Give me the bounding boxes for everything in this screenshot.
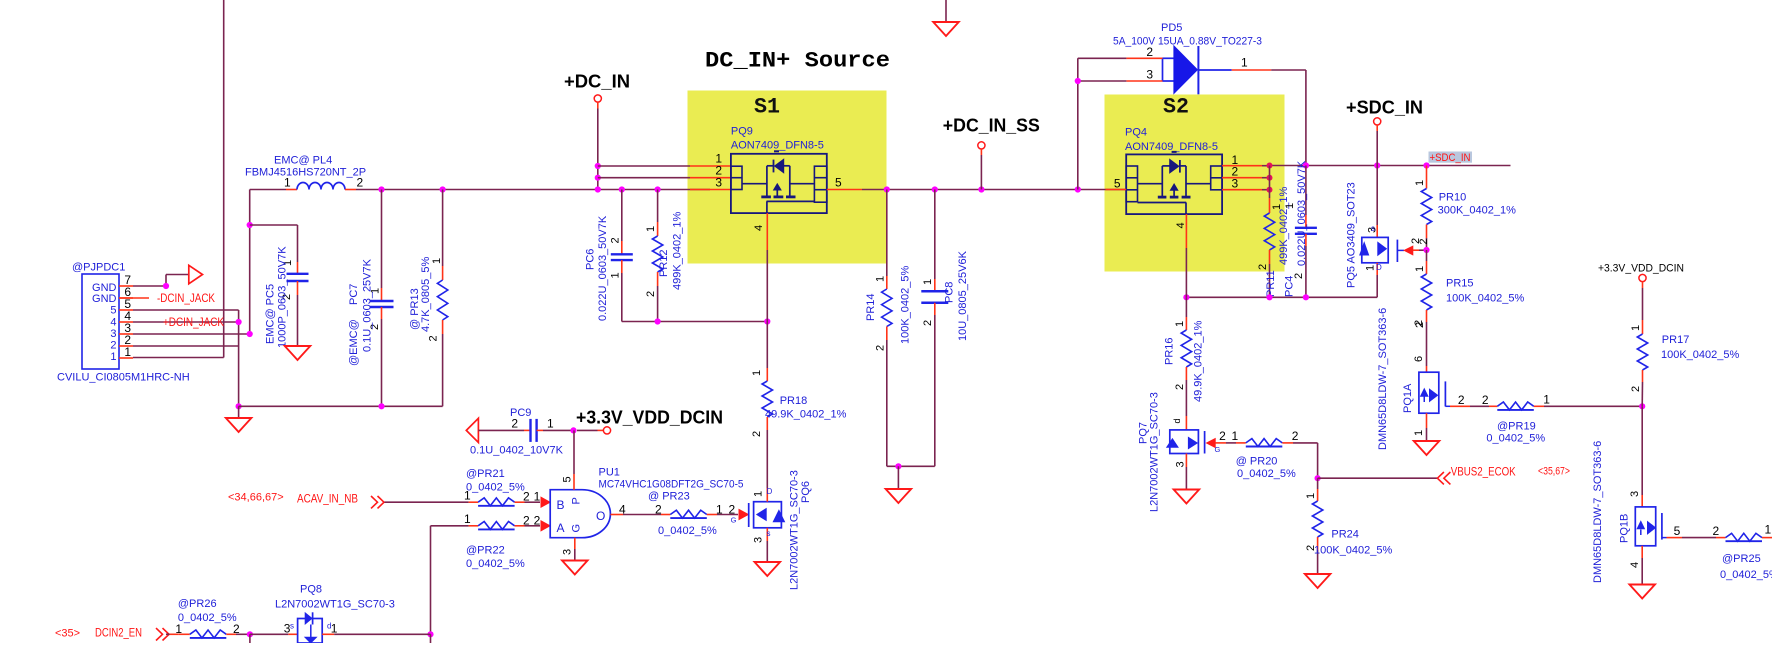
input arrow B (541, 497, 550, 507)
svg-text:2: 2 (1292, 429, 1299, 443)
wire pin4 +DCIN_JACK (133, 321, 239, 323)
junction (1075, 186, 1081, 192)
svg-text:2: 2 (610, 237, 622, 243)
junction (247, 222, 253, 228)
svg-text:AON7409_DFN8-5: AON7409_DFN8-5 (1125, 141, 1218, 153)
svg-text:1: 1 (1232, 429, 1239, 443)
svg-text:2: 2 (729, 503, 736, 517)
svg-text:3: 3 (1175, 461, 1187, 467)
capacitor PC6 (621, 190, 623, 242)
wire to VBUS2_ECOK (1317, 443, 1319, 478)
svg-text:2: 2 (428, 335, 440, 341)
junction (1267, 163, 1273, 169)
junction (595, 186, 601, 192)
svg-text:4: 4 (1175, 222, 1187, 228)
svg-text:499K_0402_1%: 499K_0402_1% (672, 211, 684, 290)
svg-text:5: 5 (835, 176, 842, 190)
transistor PQ7 L2N7002WT1G_SC70-3 (1185, 416, 1187, 430)
junction (1303, 294, 1309, 300)
svg-text:PR17: PR17 (1662, 334, 1690, 346)
resistor PR26 (170, 633, 179, 635)
junction (1266, 294, 1272, 300)
svg-text:1: 1 (1414, 180, 1426, 186)
svg-text:D: D (1376, 263, 1382, 272)
svg-text:PR18: PR18 (780, 395, 808, 407)
svg-text:100K_0402_5%: 100K_0402_5% (1446, 293, 1525, 305)
ground (226, 418, 252, 432)
svg-text:PR16: PR16 (1164, 337, 1176, 365)
svg-text:1: 1 (547, 417, 554, 431)
wire +SDC_IN bus (1270, 165, 1511, 167)
svg-text:2: 2 (233, 622, 240, 636)
svg-text:G: G (571, 524, 583, 533)
svg-text:1: 1 (110, 351, 116, 363)
resistor PR19 (1497, 402, 1534, 410)
resistor PR25 (1726, 533, 1763, 541)
svg-text:0_0402_5%: 0_0402_5% (1486, 433, 1545, 445)
svg-text:FBMJ4516HS720NT_2P: FBMJ4516HS720NT_2P (245, 167, 366, 179)
ground (1629, 585, 1655, 599)
transistor PQ5 AO3409_SOT23 (1376, 166, 1378, 226)
highlight box S1 (688, 91, 887, 264)
svg-text:O: O (596, 509, 605, 523)
input arrow A (541, 521, 550, 531)
svg-text:L2N7002WT1G_SC70-3: L2N7002WT1G_SC70-3 (275, 599, 395, 611)
resistor PR10 (1426, 166, 1428, 189)
off-page arrow DCIN2_EN (156, 628, 163, 640)
wire PQ4 pin4 (1185, 214, 1187, 248)
resistor PR18 (766, 322, 768, 369)
svg-text:5: 5 (562, 476, 574, 482)
svg-text:2: 2 (1713, 524, 1720, 538)
svg-text:P: P (571, 497, 583, 504)
svg-text:@PR21: @PR21 (466, 468, 505, 480)
svg-text:L2N7002WT1G_SC70-3: L2N7002WT1G_SC70-3 (789, 470, 801, 590)
svg-text:2: 2 (1413, 320, 1425, 326)
svg-text:PQ9: PQ9 (731, 126, 753, 138)
svg-text:1: 1 (1305, 493, 1317, 499)
wire pin5 (133, 309, 239, 311)
svg-text:1: 1 (431, 258, 443, 264)
transistor PQ6 L2N7002WT1G_SC70-3 (748, 503, 750, 527)
svg-text:10U_0805_25V6K: 10U_0805_25V6K (957, 250, 969, 341)
svg-text:2: 2 (511, 417, 518, 431)
junction (427, 631, 433, 637)
wire PQ9 pin1 (598, 165, 690, 167)
resistor PR21 (385, 501, 469, 503)
svg-text:DMN65D8LDW-7_SOT363-6: DMN65D8LDW-7_SOT363-6 (1592, 441, 1604, 583)
off-page arrow ACAV_IN_NB (371, 496, 378, 508)
ground (1414, 441, 1440, 455)
svg-text:2: 2 (922, 320, 934, 326)
junction (1423, 247, 1429, 253)
svg-text:PU1: PU1 (599, 467, 620, 479)
resistor PR13 (442, 190, 444, 267)
junction (236, 403, 242, 409)
svg-text:5: 5 (1674, 524, 1681, 538)
svg-text:1: 1 (1543, 393, 1550, 407)
junction (895, 463, 901, 469)
inductor PL4 (286, 189, 297, 191)
junction (932, 186, 938, 192)
resistor PR16 (1185, 297, 1187, 317)
ground (945, 0, 947, 22)
svg-text:1: 1 (716, 503, 723, 517)
resistor PR11 (1269, 166, 1271, 199)
wire to capacitor PC5 (250, 224, 298, 226)
svg-text:DCIN2_EN: DCIN2_EN (95, 626, 142, 640)
svg-text:d: d (327, 622, 331, 631)
svg-text:+DC_IN: +DC_IN (564, 72, 630, 92)
transistor PQ9 AON7409_DFN8-5 (731, 126, 827, 214)
svg-text:499K_0402_1%: 499K_0402_1% (1278, 186, 1290, 265)
wire PQ9 pin3 (690, 189, 731, 191)
svg-text:EMC@ PC5: EMC@ PC5 (265, 284, 277, 344)
svg-text:1: 1 (610, 272, 622, 278)
svg-text:2: 2 (357, 176, 364, 190)
resistor PR24 (1317, 478, 1319, 489)
svg-text:0.022U_0603_50V7K: 0.022U_0603_50V7K (1296, 160, 1308, 266)
junction (247, 631, 253, 637)
wire ground bus (239, 405, 443, 407)
svg-text:PD5: PD5 (1161, 22, 1182, 34)
svg-text:PC7: PC7 (348, 284, 360, 305)
svg-text:PR24: PR24 (1331, 529, 1359, 541)
svg-text:ACAV_IN_NB: ACAV_IN_NB (297, 492, 358, 506)
transistor PQ1B DMN65D8LDW-7 (1641, 406, 1643, 495)
junction (1267, 175, 1273, 181)
svg-text:+3.3V_VDD_DCIN: +3.3V_VDD_DCIN (576, 408, 723, 428)
svg-text:G: G (1215, 445, 1221, 454)
wire S2 lower link (1186, 296, 1377, 298)
svg-text:2: 2 (1418, 238, 1430, 244)
svg-text:0.1U_0402_10V7K: 0.1U_0402_10V7K (470, 445, 564, 457)
resistor PR23 (661, 514, 670, 516)
resistor PR12 (657, 190, 659, 223)
svg-text:-DCIN_JACK: -DCIN_JACK (157, 293, 215, 305)
svg-text:PQ8: PQ8 (300, 584, 322, 596)
svg-text:49.9K_0402_1%: 49.9K_0402_1% (1193, 320, 1205, 402)
junction (378, 403, 384, 409)
svg-text:@PR25: @PR25 (1722, 553, 1761, 565)
svg-text:s: s (1371, 224, 1375, 233)
svg-text:2: 2 (1630, 386, 1642, 392)
off-page arrow (189, 265, 203, 284)
svg-text:+DC_IN_SS: +DC_IN_SS (943, 116, 1040, 136)
svg-text:1: 1 (124, 345, 131, 359)
wire to ground (238, 406, 240, 418)
svg-text:d: d (1172, 418, 1182, 423)
capacitor PC7 (381, 190, 383, 289)
svg-text:S1: S1 (754, 94, 780, 120)
svg-text:PR15: PR15 (1446, 278, 1474, 290)
svg-text:1: 1 (1174, 321, 1186, 327)
ground (1174, 490, 1200, 504)
wire pin2 (133, 345, 239, 347)
transistor PQ4 AON7409_DFN8-5 (1125, 127, 1222, 215)
svg-text:3: 3 (1146, 68, 1153, 82)
svg-text:2: 2 (645, 291, 657, 297)
svg-text:PQ4: PQ4 (1125, 127, 1147, 139)
svg-text:s: s (767, 529, 771, 538)
svg-text:VBUS2_ECOK: VBUS2_ECOK (1451, 464, 1516, 478)
junction (978, 186, 984, 192)
wire PD5 pin3 (1126, 80, 1162, 82)
svg-text:CVILU_CI0805M1HRC-NH: CVILU_CI0805M1HRC-NH (57, 372, 190, 384)
svg-text:@PR22: @PR22 (466, 545, 505, 557)
transistor PQ1A DMN65D8LDW-7 (1426, 358, 1428, 366)
svg-text:PR12: PR12 (658, 249, 670, 277)
highlight box S2 (1105, 95, 1285, 272)
svg-text:AON7409_DFN8-5: AON7409_DFN8-5 (731, 140, 824, 152)
svg-text:PQ1A: PQ1A (1402, 383, 1414, 413)
wire PQ4 pin2 (1222, 177, 1262, 179)
junction (655, 186, 661, 192)
junction (1374, 162, 1380, 168)
wire PQ4 pin3 (1222, 189, 1262, 191)
wire PQ9 pin4 (766, 213, 768, 250)
svg-text:PQ1B: PQ1B (1619, 514, 1631, 543)
junction (163, 283, 169, 289)
svg-text:+3.3V_VDD_DCIN: +3.3V_VDD_DCIN (1598, 263, 1684, 275)
svg-text:0_0402_5%: 0_0402_5% (658, 525, 717, 537)
svg-text:3: 3 (1629, 491, 1641, 497)
PU1 output pin4 (610, 514, 623, 516)
svg-text:0_0402_5%: 0_0402_5% (466, 482, 525, 494)
svg-text:4: 4 (1629, 562, 1641, 568)
svg-text:L2N7002WT1G_SC70-3: L2N7002WT1G_SC70-3 (1149, 392, 1161, 512)
wire to ground (887, 465, 935, 467)
junction (570, 427, 576, 433)
resistor PR17 (1642, 282, 1644, 288)
junction (1075, 78, 1081, 84)
capacitor PC9 (478, 429, 524, 431)
svg-text:2: 2 (1482, 393, 1489, 407)
PU1 pin5 (573, 430, 575, 474)
svg-text:0_0402_5%: 0_0402_5% (1237, 468, 1296, 480)
svg-text:A: A (557, 521, 565, 535)
wire PQ9 pin2 (598, 177, 690, 179)
svg-text:s: s (290, 622, 294, 631)
svg-text:<35,67>: <35,67> (1538, 465, 1570, 477)
wire PD5 pin2 (1126, 57, 1162, 59)
svg-text:100K_0402_5%: 100K_0402_5% (900, 265, 912, 344)
svg-text:1: 1 (1630, 325, 1642, 331)
svg-text:1: 1 (1413, 430, 1425, 436)
wire pin7 to off-page arrow (133, 285, 166, 287)
svg-text:PQ5 AO3409_SOT23: PQ5 AO3409_SOT23 (1346, 182, 1358, 288)
svg-text:EMC@ PL4: EMC@ PL4 (274, 155, 332, 167)
svg-text:1: 1 (751, 370, 763, 376)
svg-text:+SDC_IN: +SDC_IN (1430, 152, 1471, 164)
connector pin stubs (119, 285, 133, 287)
resistor PR20 (1246, 439, 1283, 447)
svg-text:@PR26: @PR26 (178, 598, 217, 610)
svg-text:6: 6 (1413, 356, 1425, 362)
junction (595, 175, 601, 181)
svg-text:1: 1 (1365, 265, 1377, 271)
junction (595, 163, 601, 169)
svg-text:PC4: PC4 (1284, 276, 1296, 297)
junction (378, 186, 384, 192)
capacitor PC4 (1305, 166, 1307, 216)
svg-text:2: 2 (1146, 45, 1153, 59)
resistor PR15 (1426, 250, 1428, 261)
svg-text:5A_100V 15UA_0.88V_TO227-3: 5A_100V 15UA_0.88V_TO227-3 (1113, 36, 1262, 48)
wire PD5 pin1 (1232, 69, 1272, 71)
power +3.3V_VDD_DCIN (577, 429, 598, 431)
svg-text:<35>: <35> (55, 628, 80, 640)
svg-text:3: 3 (562, 549, 574, 555)
svg-text:1: 1 (1414, 266, 1426, 272)
svg-text:G: G (731, 516, 737, 525)
svg-text:300K_0402_1%: 300K_0402_1% (1438, 205, 1517, 217)
svg-text:PC8: PC8 (944, 282, 956, 303)
svg-text:1: 1 (922, 279, 934, 285)
svg-text:1: 1 (1284, 203, 1296, 209)
svg-text:<34,66,67>: <34,66,67> (228, 492, 284, 504)
junction (1303, 162, 1309, 168)
svg-text:1000P_0603_50V7K: 1000P_0603_50V7K (277, 246, 289, 348)
svg-text:PQ6: PQ6 (800, 481, 812, 503)
svg-text:1: 1 (1765, 523, 1772, 537)
wire PR22 to DCIN2 row (430, 526, 432, 635)
wire PQ4 pin1 (1222, 165, 1262, 167)
svg-text:PR14: PR14 (865, 293, 877, 321)
svg-text:@EMC@: @EMC@ (348, 319, 360, 366)
svg-text:1: 1 (284, 176, 291, 190)
svg-text:@PJPDC1: @PJPDC1 (72, 262, 125, 274)
svg-text:1: 1 (645, 226, 657, 232)
svg-text:+SDC_IN: +SDC_IN (1346, 98, 1423, 118)
svg-text:1: 1 (464, 512, 471, 526)
svg-text:1: 1 (1241, 56, 1248, 70)
svg-text:0.1U_0603_25V7K: 0.1U_0603_25V7K (362, 258, 374, 352)
wire PQ9 pin5 (827, 189, 862, 191)
junction (1183, 294, 1189, 300)
svg-text:0_0402_5%: 0_0402_5% (1720, 569, 1772, 581)
wire pin3 (133, 333, 250, 335)
junction (247, 331, 253, 337)
svg-text:2: 2 (1458, 393, 1465, 407)
svg-text:DC_IN+ Source: DC_IN+ Source (705, 48, 890, 73)
svg-text:PR10: PR10 (1439, 192, 1467, 204)
svg-text:1: 1 (534, 490, 541, 504)
off-page arrow (PC9) (466, 418, 478, 442)
junction (236, 319, 242, 325)
svg-text:5: 5 (110, 305, 116, 317)
capacitor PC5 (297, 262, 299, 274)
svg-text:1: 1 (175, 622, 182, 636)
svg-text:2: 2 (875, 345, 887, 351)
svg-text:5: 5 (1114, 177, 1121, 191)
junction (619, 186, 625, 192)
svg-text:PR11: PR11 (1265, 270, 1277, 297)
svg-text:0_0402_5%: 0_0402_5% (466, 558, 525, 570)
svg-text:@ PR23: @ PR23 (648, 491, 690, 503)
svg-text:2: 2 (523, 513, 530, 527)
svg-text:GND: GND (92, 293, 117, 305)
resistor PR14 (886, 190, 888, 277)
input arrow PQ6 gate (739, 510, 748, 520)
ground (886, 489, 912, 503)
junction (1423, 162, 1429, 168)
svg-text:PC6: PC6 (585, 249, 597, 270)
wire main +DC_IN bus (250, 189, 286, 191)
connector PJPDC1 (82, 274, 119, 369)
ground (285, 346, 311, 360)
junction (1639, 403, 1645, 409)
svg-text:2: 2 (534, 513, 541, 527)
svg-text:1: 1 (331, 622, 338, 636)
svg-text:2: 2 (1219, 429, 1226, 443)
svg-text:1: 1 (753, 491, 765, 497)
wire to PQ8 (250, 633, 288, 635)
svg-text:3: 3 (753, 537, 765, 543)
svg-text:2: 2 (1174, 384, 1186, 390)
svg-text:@ PR20: @ PR20 (1236, 456, 1278, 468)
svg-text:@PR19: @PR19 (1497, 421, 1536, 433)
net +SDC_IN highlighted (1429, 152, 1473, 163)
svg-text:100K_0402_5%: 100K_0402_5% (1314, 545, 1393, 557)
svg-text:0.022U_0603_50V7K: 0.022U_0603_50V7K (597, 215, 609, 321)
wire pin6 -DCIN_JACK (119, 297, 149, 299)
svg-text:4.7K_0805_5%: 4.7K_0805_5% (420, 257, 432, 332)
resistor PR22 (431, 525, 469, 527)
svg-text:2: 2 (1257, 264, 1269, 270)
wire vertical to PL4 (249, 190, 251, 335)
svg-text:S2: S2 (1163, 94, 1189, 120)
svg-text:2: 2 (655, 503, 662, 517)
svg-text:4: 4 (753, 225, 765, 231)
svg-text:4: 4 (110, 317, 116, 329)
svg-text:B: B (557, 498, 565, 512)
wire PQ4 pin5 (1106, 189, 1127, 191)
svg-text:2: 2 (110, 340, 116, 352)
svg-text:100K_0402_5%: 100K_0402_5% (1661, 349, 1740, 361)
ground (1305, 574, 1331, 588)
svg-text:49.9K_0402_1%: 49.9K_0402_1% (765, 409, 847, 421)
junction (1267, 187, 1273, 193)
svg-text:1: 1 (875, 276, 887, 282)
svg-text:DMN65D8LDW-7_SOT363-6: DMN65D8LDW-7_SOT363-6 (1377, 308, 1389, 450)
wire S1 lower link (622, 321, 768, 323)
junction (440, 186, 446, 192)
svg-text:0_0402_5%: 0_0402_5% (178, 612, 237, 624)
PU1 pin3 + ground (574, 538, 576, 549)
svg-text:4: 4 (619, 503, 626, 517)
ground (755, 562, 781, 576)
svg-text:3: 3 (715, 176, 722, 190)
junction (1315, 475, 1321, 481)
svg-text:+DCIN_JACK: +DCIN_JACK (163, 317, 224, 329)
svg-text:3: 3 (1232, 177, 1239, 191)
capacitor PC8 (934, 190, 936, 280)
wire vertical jack bus (238, 310, 240, 406)
junction (764, 318, 770, 324)
svg-text:D: D (767, 487, 773, 496)
svg-text:MC74VHC1G08DFT2G_SC70-5: MC74VHC1G08DFT2G_SC70-5 (599, 479, 744, 491)
svg-text:2: 2 (751, 431, 763, 437)
junction (655, 318, 661, 324)
svg-text:3: 3 (110, 328, 116, 340)
off-page arrow VBUS2_ECOK (1437, 472, 1444, 484)
junction (884, 186, 890, 192)
wire off-page vertical to pin1 (223, 0, 225, 358)
